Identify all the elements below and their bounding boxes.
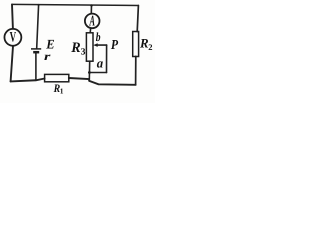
wire battery bottom [35, 53, 37, 80]
svg-text:E: E [45, 37, 55, 52]
battery long plate [31, 48, 41, 50]
svg-text:a: a [97, 55, 104, 70]
junction dot (top wire / battery branch) [38, 4, 40, 6]
junction dot (top wire / ammeter branch) [90, 4, 92, 6]
svg-text:P: P [111, 37, 119, 52]
svg-text:b: b [96, 30, 101, 44]
wire left lower [11, 46, 13, 81]
wire slider horizontal [97, 44, 106, 46]
svg-text:1: 1 [60, 87, 64, 96]
slider arrowhead [93, 43, 98, 47]
wire left upper [11, 4, 14, 28]
wire ammeter to R3 [89, 29, 91, 33]
svg-text:3: 3 [81, 48, 86, 58]
resistor R2 box [133, 32, 139, 57]
wire bottom right [69, 78, 136, 85]
svg-text:A: A [89, 13, 95, 29]
ammeter A [85, 13, 100, 29]
wire battery top [37, 5, 39, 48]
svg-text:2: 2 [148, 42, 152, 52]
junction dot (slider loop / R3 bottom) [88, 71, 91, 74]
rheostat R3 box [86, 33, 93, 61]
battery short plate [33, 51, 39, 54]
wire slider vertical [106, 45, 108, 72]
svg-text:R: R [70, 40, 81, 56]
wire right upper [137, 6, 138, 32]
wire bottom left [11, 79, 45, 82]
resistor R1 box [45, 74, 69, 81]
wire top [12, 4, 138, 5]
wire R3 bottom [88, 61, 90, 81]
svg-text:r: r [44, 51, 51, 63]
voltmeter V [4, 29, 21, 46]
wire right lower [135, 56, 137, 84]
svg-text:V: V [10, 30, 17, 46]
wire ammeter top [90, 5, 92, 13]
wire slider bottom [89, 72, 106, 74]
